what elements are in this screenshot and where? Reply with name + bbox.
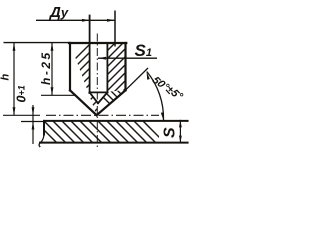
svg-text:Ду: Ду [48, 4, 69, 21]
svg-text:0+1: 0+1 [15, 85, 29, 102]
svg-text:h-25: h-25 [39, 50, 53, 85]
svg-text:h: h [0, 74, 12, 81]
svg-text:S: S [162, 127, 179, 138]
